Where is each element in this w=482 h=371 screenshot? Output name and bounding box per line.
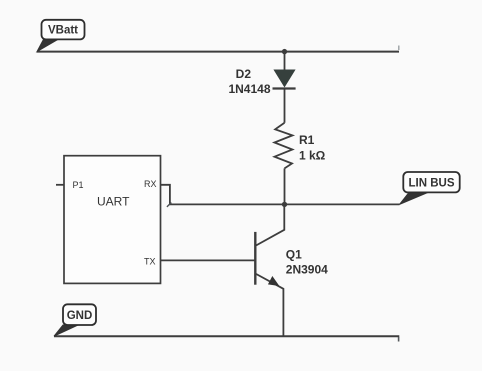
junction node VBatt / D2 anode [282, 49, 287, 54]
wire VBatt top rail [37, 46, 399, 52]
pin label RX [144, 179, 157, 189]
transistor Q1 [255, 204, 284, 336]
resistor R1 [274, 123, 292, 169]
wire R1 to collector node [284, 168, 286, 204]
wire D2 cathode to R1 [284, 89, 286, 123]
wire D2 anode [284, 52, 286, 70]
svg-text:LIN BUS: LIN BUS [409, 177, 455, 189]
svg-text:D2: D2 [236, 67, 252, 81]
svg-text:TX: TX [144, 256, 156, 266]
svg-text:2N3904: 2N3904 [286, 262, 328, 276]
net label VBatt [37, 20, 85, 52]
value 2N3904 [286, 262, 328, 276]
svg-text:RX: RX [144, 179, 157, 189]
value 1 kOhm [299, 148, 326, 162]
net label LIN BUS [400, 172, 460, 204]
wire UART RX to LIN BUS net [161, 185, 400, 207]
wire P1 stub [56, 184, 64, 186]
junction node R1 / Q1 collector / LIN BUS [282, 202, 287, 207]
svg-text:R1: R1 [299, 133, 315, 147]
svg-text:Q1: Q1 [286, 247, 302, 261]
svg-text:GND: GND [67, 310, 93, 322]
label D2 [236, 67, 252, 81]
label Q1 [286, 247, 302, 261]
svg-text:1N4148: 1N4148 [228, 82, 270, 96]
svg-text:VBatt: VBatt [48, 25, 78, 37]
pin label TX [144, 256, 156, 266]
diode D2 [273, 70, 296, 89]
net label GND [54, 304, 96, 336]
wire GND bottom rail [54, 336, 399, 341]
svg-text:P1: P1 [73, 180, 84, 190]
value 1N4148 [228, 82, 270, 96]
svg-text:UART: UART [97, 194, 130, 208]
label P1 (pin) [73, 180, 84, 190]
svg-text:1 kΩ: 1 kΩ [299, 148, 326, 162]
label R1 [299, 133, 315, 147]
wire TX to Q1 base [161, 259, 256, 261]
IC P1 UART body [64, 156, 161, 284]
